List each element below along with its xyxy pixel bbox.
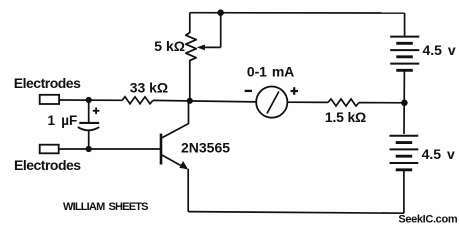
wire: 33k to meter (through collector node) <box>153 100 256 102</box>
watermark SeekIC.com <box>398 213 457 225</box>
wire: top electrode to base-node horizontal <box>59 99 122 101</box>
node: wiper / top rail junction dot <box>217 9 224 16</box>
label Electrodes (bottom) <box>14 157 81 173</box>
svg-text:Electrodes: Electrodes <box>14 75 81 91</box>
wire: pot bottom lead to node <box>189 60 191 101</box>
svg-text:33 kΩ: 33 kΩ <box>130 80 168 96</box>
meter minus terminal sign <box>245 90 252 92</box>
node: battery midpoint junction dot <box>401 100 408 107</box>
node: collector/pot junction dot <box>187 98 193 104</box>
svg-text:SeekIC.com: SeekIC.com <box>398 213 457 225</box>
polarity + of capacitor <box>93 108 100 115</box>
wire: meter to 1.5k resistor <box>287 101 328 103</box>
node: bottom electrode junction dot <box>86 146 92 152</box>
potentiometer wiper arrow <box>197 13 221 51</box>
value label 4.5 v (bottom battery) <box>422 146 455 162</box>
battery B1 4.5 v <box>390 37 419 71</box>
resistor 1.5 kΩ (zigzag) <box>328 99 359 106</box>
wire: top junction down to capacitor <box>88 100 90 122</box>
wire: emitter down to bottom rail <box>187 169 189 212</box>
value label 1 µF <box>48 113 78 128</box>
wire: battery B2 down to bottom rail <box>403 170 405 213</box>
wire: bottom electrode to transistor base <box>59 148 160 150</box>
wire: bottom rail <box>188 212 404 214</box>
svg-text:Electrodes: Electrodes <box>14 157 81 173</box>
svg-text:4.5 v: 4.5 v <box>423 42 456 58</box>
value label 1.5 kΩ <box>325 109 366 125</box>
value label 33 kΩ <box>130 80 168 96</box>
label Electrodes (top) <box>14 75 81 91</box>
svg-text:1 µF: 1 µF <box>48 113 78 128</box>
wire: top rail down to battery B1 <box>404 13 406 36</box>
svg-text:5 kΩ: 5 kΩ <box>154 38 185 54</box>
meter M1 0-1 mA <box>256 87 287 118</box>
label 2N3565 <box>181 139 230 155</box>
node: top electrode junction dot <box>86 97 92 103</box>
wire: pot top lead to top rail <box>189 13 191 33</box>
svg-text:0-1 mA: 0-1 mA <box>247 64 294 80</box>
svg-text:2N3565: 2N3565 <box>181 139 230 155</box>
svg-text:1.5 kΩ: 1.5 kΩ <box>325 109 366 125</box>
battery B2 4.5 v <box>390 136 419 170</box>
wire: 1.5k to battery node <box>359 102 404 104</box>
resistor 33 kΩ (zigzag) <box>122 97 153 104</box>
svg-text:4.5 v: 4.5 v <box>422 146 455 162</box>
electrode plate bottom (rectangle) <box>40 145 59 154</box>
transistor Q1 2N3565 (NPN) <box>161 124 189 170</box>
electrode plate top (rectangle) <box>40 95 59 104</box>
svg-text:WILLIAM SHEETS: WILLIAM SHEETS <box>63 201 148 213</box>
value label 5 kΩ <box>154 38 185 54</box>
label 0-1 mA <box>247 64 294 80</box>
label WILLIAM SHEETS <box>63 201 148 213</box>
meter plus terminal sign <box>291 87 299 95</box>
wire: battery B1 to node to battery B2 <box>403 70 405 134</box>
value label 4.5 v (top battery) <box>423 42 456 58</box>
capacitor 1 µF (polarized) <box>78 123 99 149</box>
potentiometer 5 kΩ (zigzag) <box>186 33 196 61</box>
wire: top rail <box>190 12 405 14</box>
wire: collector up to node <box>188 101 190 124</box>
